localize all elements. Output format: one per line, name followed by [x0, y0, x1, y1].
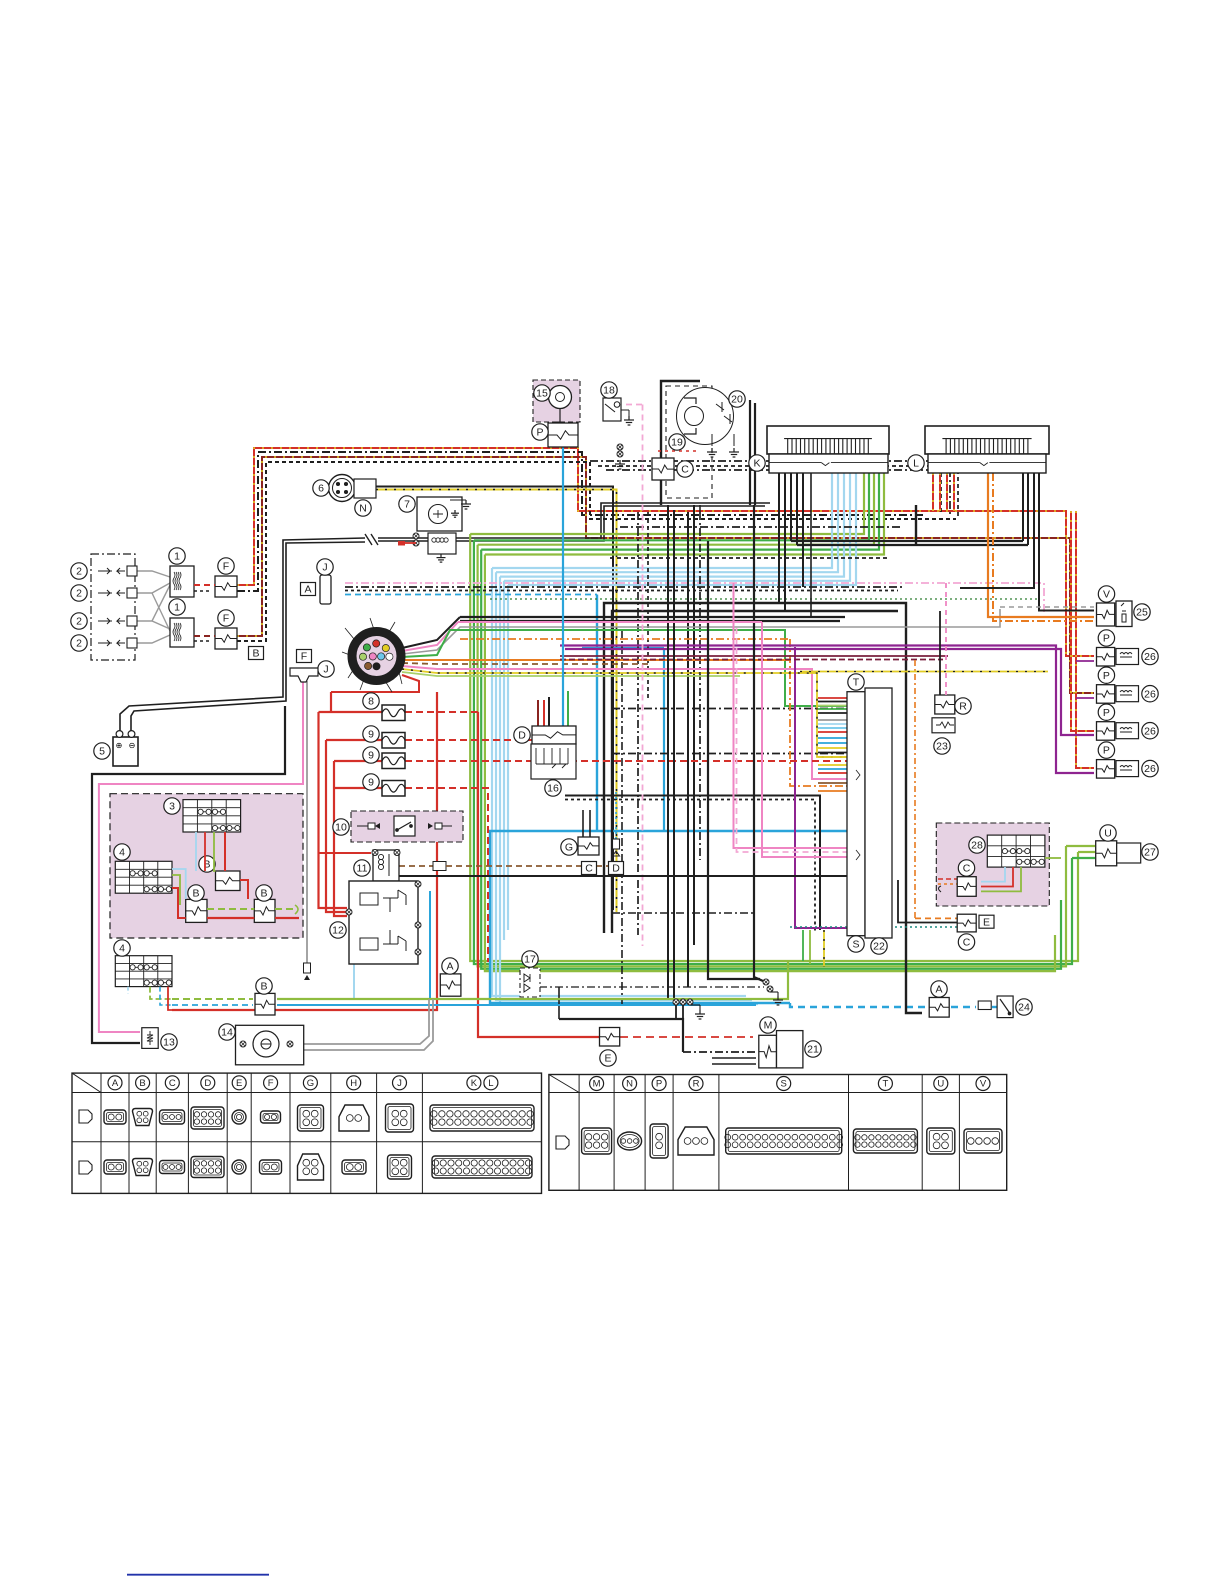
wire: black dash-dot cross lines	[345, 587, 1040, 599]
wire: fuse circuit red loop	[172, 692, 847, 1037]
wire: battery positive feed	[120, 503, 770, 734]
sidestand switch 14	[236, 1025, 304, 1065]
svg-text:T: T	[882, 1079, 888, 1090]
svg-text:P: P	[656, 1079, 662, 1090]
wire: green harness bundle	[470, 473, 1095, 971]
svg-text:C: C	[963, 937, 971, 949]
right table headers	[590, 1077, 990, 1091]
svg-text:J: J	[397, 1078, 402, 1089]
right sensor pink box 28	[936, 823, 1049, 906]
svg-text:17: 17	[524, 954, 536, 966]
svg-text:P: P	[1103, 707, 1110, 719]
connector B left	[186, 899, 207, 922]
wire: pink verticals center	[458, 583, 847, 857]
connector U/27	[1096, 841, 1141, 866]
svg-text:11: 11	[357, 863, 368, 875]
svg-text:9: 9	[368, 750, 374, 762]
svg-text:1: 1	[174, 602, 180, 614]
injector P	[1097, 760, 1139, 779]
svg-text:S: S	[852, 939, 859, 951]
fuse 8	[382, 705, 405, 721]
svg-text:C: C	[169, 1078, 176, 1089]
svg-text:P: P	[1103, 745, 1110, 757]
connector C right	[957, 877, 976, 897]
svg-text:C: C	[681, 464, 689, 476]
diode D small	[613, 839, 620, 856]
svg-text:R: R	[959, 701, 967, 713]
svg-text:T: T	[853, 677, 860, 689]
svg-text:19: 19	[671, 437, 683, 449]
svg-text:C: C	[963, 863, 971, 875]
svg-text:2: 2	[76, 588, 82, 600]
svg-text:D: D	[518, 730, 526, 742]
injector P	[1097, 685, 1139, 704]
connector E right	[957, 914, 976, 932]
svg-text:27: 27	[1144, 847, 1156, 859]
wire: relay 11 leads	[319, 853, 848, 876]
bottom-right connector table	[549, 1075, 1007, 1191]
svg-text:G: G	[307, 1078, 314, 1089]
table4-lower leads	[128, 987, 172, 1010]
svg-text:A: A	[446, 961, 453, 973]
svg-text:H: H	[350, 1078, 357, 1089]
bolt pair near generator	[615, 444, 625, 469]
svg-text:B: B	[192, 888, 199, 900]
svg-text:U: U	[937, 1079, 944, 1090]
table 4 lower	[115, 956, 172, 987]
starter relay unit 12	[346, 881, 421, 964]
svg-text:P: P	[1103, 670, 1110, 682]
svg-text:2: 2	[76, 566, 82, 578]
wire: S bottom stubs	[803, 930, 824, 966]
svg-text:A: A	[935, 984, 942, 996]
wire: tail blue mark	[127, 1574, 269, 1576]
wire: sensor box links	[938, 858, 1061, 891]
svg-text:12: 12	[332, 925, 344, 937]
sensor G	[578, 837, 599, 855]
left pink fuse/relay box	[110, 794, 303, 938]
svg-text:M: M	[593, 1079, 601, 1090]
left table headers	[108, 1076, 498, 1090]
relay 10 (pink dashed box)	[351, 811, 463, 842]
rectifier D/16	[531, 726, 576, 779]
svg-text:E: E	[983, 916, 990, 928]
svg-text:8: 8	[368, 696, 374, 708]
svg-text:22: 22	[873, 941, 885, 953]
svg-text:F: F	[223, 613, 229, 625]
svg-text:25: 25	[1136, 607, 1148, 619]
sensor R/23	[932, 583, 955, 733]
svg-text:24: 24	[1018, 1002, 1030, 1014]
ignition coil 1 upper	[170, 566, 194, 597]
ground bolts cluster lower	[673, 999, 705, 1019]
wire: main black loop	[604, 505, 922, 1013]
svg-text:N: N	[626, 1079, 633, 1090]
wire: ignition coil gray links	[135, 571, 170, 643]
wire: headlight feed bundle top	[237, 448, 1094, 768]
connector E bottom	[600, 1028, 620, 1047]
wire: maroon pair center	[560, 656, 948, 660]
connector F upper	[215, 576, 237, 597]
svg-text:4: 4	[119, 943, 125, 955]
battery 5	[113, 731, 138, 766]
relay M/21	[759, 1031, 803, 1068]
relay 11	[372, 850, 400, 882]
wire: E right connector leads	[790, 660, 957, 927]
fuse 9a	[382, 733, 405, 749]
wire: throttle cyan drop from P	[562, 440, 564, 726]
right table glyphs	[582, 1124, 1002, 1158]
svg-text:P: P	[1103, 633, 1110, 645]
wire: blue dashed / cyan loop	[345, 595, 999, 1008]
svg-text:⊖: ⊖	[129, 741, 136, 750]
ignition coil V/25	[1097, 601, 1133, 627]
wire: round-connector fan harness	[331, 609, 1000, 786]
svg-text:K: K	[471, 1078, 478, 1089]
svg-text:E: E	[604, 1053, 611, 1065]
component 15 pink box	[533, 380, 580, 422]
svg-text:9: 9	[368, 777, 374, 789]
svg-text:4: 4	[119, 847, 125, 859]
connector A left (boxed)	[320, 575, 331, 604]
svg-text:26: 26	[1144, 725, 1156, 737]
svg-text:K: K	[753, 458, 760, 470]
fuse 9b	[382, 753, 405, 769]
flasher relay 7	[398, 497, 471, 562]
svg-text:F: F	[301, 651, 307, 663]
wire: black mid horizontals	[460, 541, 1028, 933]
svg-text:A: A	[112, 1078, 119, 1089]
svg-text:L: L	[488, 1078, 493, 1089]
wire: K-connector black drops	[779, 473, 811, 617]
svg-text:2: 2	[76, 638, 82, 650]
svg-text:3: 3	[169, 801, 175, 813]
svg-text:G: G	[565, 842, 573, 854]
svg-text:L: L	[913, 458, 919, 470]
svg-text:18: 18	[603, 385, 615, 397]
injector P	[1097, 722, 1139, 741]
svg-text:C: C	[585, 863, 593, 875]
svg-text:26: 26	[1144, 688, 1156, 700]
svg-text:28: 28	[971, 840, 983, 852]
connector F lower	[215, 628, 237, 649]
left table row1 glyphs	[104, 1104, 534, 1132]
diode block 17	[520, 968, 540, 997]
svg-text:F: F	[223, 561, 229, 573]
wire: pink dash-dot main	[345, 583, 1044, 612]
switch 18	[603, 398, 634, 425]
svg-text:A: A	[304, 584, 311, 596]
svg-text:R: R	[693, 1079, 700, 1090]
svg-text:M: M	[764, 1020, 773, 1032]
svg-text:B: B	[252, 648, 259, 660]
wire: horn pair	[376, 487, 617, 913]
wire: center mesh black density	[590, 461, 958, 1008]
svg-text:⊕: ⊕	[116, 741, 123, 750]
svg-text:21: 21	[807, 1044, 819, 1056]
svg-text:J: J	[322, 562, 327, 574]
svg-text:9: 9	[368, 729, 374, 741]
wire: D regulator stubs	[538, 691, 568, 726]
wire: light-blue harness bundle	[492, 473, 856, 1004]
svg-text:S: S	[781, 1079, 787, 1090]
connector A mid-bottom	[440, 974, 461, 996]
wire: pink dash drop from 18	[626, 405, 643, 947]
svg-text:16: 16	[547, 783, 559, 795]
svg-text:1: 1	[174, 551, 180, 563]
wire: purple pair to injectors	[560, 646, 1094, 929]
generator / regulator block 19-20	[658, 381, 755, 512]
wire: relay 12 leads	[354, 891, 430, 999]
svg-text:E: E	[236, 1078, 242, 1089]
svg-text:20: 20	[731, 394, 743, 406]
ignition coil 1 lower	[170, 618, 194, 647]
svg-text:B: B	[260, 981, 267, 993]
main round connector B/J	[342, 618, 402, 692]
connector K ECU	[767, 426, 889, 454]
svg-text:15: 15	[536, 388, 548, 400]
label 2 (x4)	[71, 563, 87, 579]
svg-text:V: V	[980, 1079, 987, 1090]
svg-text:7: 7	[404, 499, 410, 511]
wire: ECU left stubs	[818, 698, 847, 791]
connector A bottom right / switch 24	[929, 996, 1013, 1018]
connector L ECU	[925, 426, 1049, 454]
svg-text:23: 23	[936, 741, 948, 753]
wire: sensor ground dash-dot bottom	[539, 987, 764, 1064]
svg-text:14: 14	[221, 1027, 233, 1039]
injector P	[1097, 648, 1139, 667]
connector F plate	[290, 668, 318, 682]
svg-text:P: P	[536, 427, 543, 439]
svg-text:26: 26	[1144, 651, 1156, 663]
left turn-signal block	[91, 554, 137, 660]
wire: yellow dash near ECU right	[800, 671, 1048, 673]
horn 6 / N	[329, 475, 377, 502]
connector B bottom	[255, 993, 275, 1015]
svg-text:10: 10	[335, 822, 347, 834]
right table tab glyph	[556, 1136, 569, 1149]
connector C generator	[652, 458, 674, 480]
svg-text:V: V	[1103, 589, 1110, 601]
svg-text:D: D	[204, 1078, 211, 1089]
wire: G sensor stems	[583, 792, 616, 839]
svg-text:6: 6	[318, 483, 324, 495]
left table row2 glyphs	[104, 1154, 532, 1180]
svg-text:U: U	[1104, 828, 1112, 840]
svg-text:26: 26	[1144, 763, 1156, 775]
resistor 13	[142, 1028, 158, 1049]
bottom-left connector table	[72, 1073, 542, 1193]
svg-text:F: F	[268, 1078, 274, 1089]
pink box internal wires	[172, 832, 299, 918]
connector P throttle	[548, 423, 578, 447]
svg-text:5: 5	[99, 746, 105, 758]
svg-text:D: D	[612, 863, 620, 875]
ground bolts cluster center	[763, 979, 783, 1005]
svg-text:B: B	[139, 1078, 145, 1089]
svg-text:B: B	[260, 888, 267, 900]
table 4 upper	[115, 861, 172, 893]
left table tab glyphs	[79, 1110, 92, 1123]
connector B mid	[216, 871, 241, 891]
svg-text:13: 13	[163, 1037, 175, 1049]
svg-text:2: 2	[76, 616, 82, 628]
wire: pink/gray to rear (left drop)	[99, 681, 311, 1032]
connector B right2	[254, 899, 275, 922]
ECU main T/S	[847, 688, 892, 938]
red dash links coils to F	[194, 585, 215, 641]
svg-text:N: N	[359, 503, 367, 515]
wire: battery negative to rear	[92, 706, 285, 1043]
wire: sidestand gray link 14	[304, 999, 433, 1050]
table 3	[183, 800, 241, 832]
wire: L-connector red/orange/black drops	[933, 473, 1094, 621]
fuse 9c	[382, 781, 405, 797]
svg-text:J: J	[323, 664, 328, 676]
wire: seat switch green/cyan bottom run	[172, 961, 788, 1005]
wire: generator ground verticals	[668, 505, 763, 999]
